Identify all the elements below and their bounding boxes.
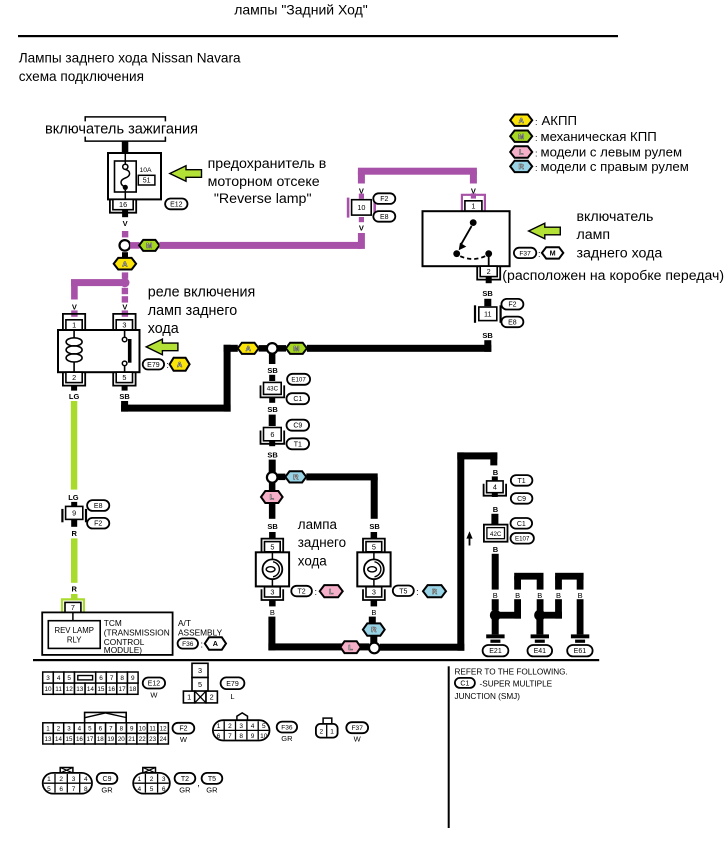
svg-text:16: 16 (76, 736, 83, 743)
wire SB horizontal run to switch branch (307, 345, 491, 352)
svg-text:B: B (493, 468, 499, 477)
svg-text::: : (535, 163, 538, 173)
relay coil branch: purple dashed wire V (71, 283, 78, 317)
svg-text:43C: 43C (267, 386, 279, 393)
svg-text::: : (416, 587, 419, 597)
bridge wire dot1 to E41 (495, 573, 543, 619)
option symbol M on SB wire (286, 343, 307, 354)
svg-text:R: R (519, 162, 525, 171)
svg-text:11: 11 (149, 725, 156, 732)
wire color labels B on ground verticals (491, 590, 585, 600)
svg-text:JUNCTION (SMJ): JUNCTION (SMJ) (455, 692, 521, 701)
svg-text:1: 1 (137, 776, 141, 783)
svg-text:V: V (359, 224, 364, 233)
lamp callout text (298, 517, 346, 569)
svg-text::: : (535, 117, 538, 127)
svg-text::: : (166, 360, 169, 370)
svg-text:9: 9 (251, 733, 255, 740)
svg-text:(расположен на коробке передач: (расположен на коробке передач) (502, 267, 724, 283)
svg-text:42C: 42C (490, 531, 502, 538)
connector 16 below fuse (110, 199, 136, 212)
svg-text:8: 8 (84, 786, 88, 793)
svg-text:8: 8 (120, 725, 124, 732)
svg-text:2: 2 (72, 373, 76, 382)
svg-text:лампа: лампа (298, 517, 338, 532)
right reverse lamp connector pin 5 (363, 539, 385, 552)
svg-text:V: V (123, 219, 128, 228)
TCM text (104, 618, 170, 655)
switch callout arrow (529, 223, 561, 239)
connector face F36 (213, 713, 270, 741)
svg-text:11: 11 (55, 686, 62, 693)
connector reference T1 oval at 4 (511, 475, 533, 486)
svg-text:10: 10 (139, 725, 146, 732)
svg-text:хода: хода (148, 321, 179, 337)
svg-text:5: 5 (47, 786, 51, 793)
svg-text:3: 3 (72, 776, 76, 783)
wire R down to TCM (71, 538, 78, 600)
connector face E12 grid (43, 672, 138, 694)
svg-text:лампы "Задний Ход": лампы "Задний Ход" (234, 2, 368, 18)
relay contact (122, 330, 131, 372)
svg-text:REV LAMP: REV LAMP (54, 626, 93, 635)
wire stub below 6 (267, 441, 278, 460)
ground junction dot 1 (490, 610, 501, 621)
wire B bottom horizontal run (268, 643, 369, 650)
svg-text:12: 12 (66, 686, 74, 693)
wire stub below relay pin 5 (122, 386, 128, 391)
ground symbol E41 (531, 634, 549, 642)
svg-text:V: V (72, 303, 77, 312)
wire SB from switch to connector 11 (484, 299, 491, 306)
wire pin7 into REV LAMP RLY (72, 612, 74, 620)
wire B from 42C to ground E21 (492, 545, 499, 611)
connector face T2 (133, 768, 170, 794)
connector face F37 label (346, 722, 368, 743)
wire stub above connector 9 (71, 502, 77, 507)
svg-text:реле включения: реле включения (148, 285, 255, 301)
wire stub below 43C (267, 398, 278, 415)
svg-text:2: 2 (210, 693, 214, 702)
svg-text:10A: 10A (140, 167, 153, 174)
inline connector 9 (62, 506, 86, 522)
purple wire V to relay branch (71, 279, 125, 286)
wire stub below connector 16 (122, 210, 128, 218)
svg-text:B: B (270, 608, 275, 617)
svg-text:B: B (493, 545, 499, 554)
wire stub node to R symbol (278, 474, 286, 481)
wire B top run to body ground chain (457, 452, 497, 459)
switch connector pin 2 (477, 266, 500, 279)
svg-text:M: M (146, 241, 152, 250)
svg-text:АКПП: АКПП (542, 113, 577, 128)
connector face F2 label (173, 723, 195, 744)
svg-text:L: L (348, 643, 353, 652)
option symbol A below node (114, 258, 136, 270)
connector reference E8 oval (373, 211, 395, 222)
relay contact branch: purple dashed wire V (122, 288, 128, 317)
svg-text:SB: SB (267, 451, 278, 460)
svg-text::: : (535, 148, 538, 158)
svg-text:18: 18 (129, 686, 137, 693)
junction node circle at lamps (267, 472, 278, 483)
connector reference E8 oval at 11 (501, 317, 523, 328)
svg-text:V: V (122, 303, 127, 312)
svg-text:51: 51 (143, 178, 151, 185)
wire SB vertical rise to A symbol (224, 345, 231, 412)
svg-text::: : (201, 639, 204, 649)
svg-text:4: 4 (137, 786, 141, 793)
fuse callout text (208, 156, 327, 207)
svg-text::: : (535, 133, 538, 143)
svg-text:9: 9 (130, 725, 134, 732)
connector face E12 label (143, 678, 165, 700)
inline connector 4 (484, 476, 507, 495)
svg-text:,: , (197, 778, 200, 788)
svg-text:5: 5 (88, 725, 92, 732)
svg-text::: : (538, 249, 541, 259)
wire B from right lamp down (369, 617, 376, 624)
svg-text:E8: E8 (94, 503, 103, 510)
wire LG from relay pin 2 down (68, 401, 79, 502)
svg-text:R: R (432, 587, 438, 596)
TCM connector reference F36 : A (178, 637, 226, 649)
wire SB to left lamp (267, 503, 278, 531)
legend symbol A (AKPP) (510, 113, 577, 128)
svg-text:5: 5 (262, 723, 266, 730)
svg-text:SB: SB (482, 289, 493, 298)
wire from ignition switch to fuse box (122, 141, 129, 153)
svg-text:16: 16 (119, 200, 127, 209)
svg-text:L: L (270, 493, 275, 502)
svg-text:LG: LG (68, 493, 79, 502)
svg-text:2: 2 (57, 725, 61, 732)
purple wire V rising to connector 10 (358, 171, 365, 199)
footnote C1 oval (455, 678, 475, 688)
svg-text:22: 22 (139, 736, 146, 743)
connector face C9 label (97, 773, 118, 795)
purple wire stub node to M symbol (130, 242, 140, 249)
svg-text:E107: E107 (515, 536, 530, 543)
svg-text:SB: SB (267, 405, 278, 414)
svg-text:A: A (122, 259, 127, 268)
relay connector pin 2 (63, 372, 85, 385)
svg-text:B: B (493, 591, 498, 600)
connector label E12 oval (165, 199, 187, 210)
TCM box (42, 612, 172, 655)
bridge wire dot2 to E61 (540, 573, 584, 635)
ground reference oval E61 (567, 645, 592, 656)
svg-text:E21: E21 (489, 648, 502, 655)
svg-text:F36: F36 (182, 641, 194, 648)
svg-text:M: M (293, 344, 299, 353)
wire stub below switch pin 2 (486, 277, 492, 284)
connector reference F2 oval at 9 (87, 518, 109, 529)
connector face T2 label (175, 773, 196, 795)
svg-text:F2: F2 (508, 302, 516, 309)
svg-text:E8: E8 (380, 214, 389, 221)
wire SB from connector 11 to main run (484, 340, 491, 352)
svg-text:3: 3 (122, 321, 126, 330)
purple wire V top horizontal run (358, 168, 477, 175)
relay connector pin 1 (63, 314, 85, 330)
footnote vertical divider (448, 666, 450, 828)
svg-text:2: 2 (319, 728, 323, 735)
svg-text:6: 6 (99, 675, 103, 682)
switch connector pin 1 (462, 195, 485, 211)
svg-text:1: 1 (330, 728, 334, 735)
svg-text:16: 16 (108, 686, 116, 693)
reverse lamp relay box (58, 330, 140, 372)
svg-text:6: 6 (162, 786, 166, 793)
fuse F 10A symbol (115, 154, 137, 199)
relay callout arrow (146, 339, 178, 355)
option symbol A on SB wire (238, 343, 259, 354)
svg-text:3: 3 (162, 776, 166, 783)
svg-text:1: 1 (217, 723, 221, 730)
bottom separator rule (33, 659, 599, 661)
connector reference E107 oval at 42C (511, 533, 534, 544)
svg-text:F2: F2 (94, 521, 102, 528)
inline connector 42C (484, 525, 508, 542)
svg-text:18: 18 (97, 736, 104, 743)
svg-text:C1: C1 (293, 396, 302, 403)
svg-text:5: 5 (198, 680, 202, 689)
svg-text:ASSEMBLY: ASSEMBLY (178, 627, 223, 637)
svg-text:механическая КПП: механическая КПП (541, 129, 657, 144)
svg-text:E41: E41 (534, 648, 547, 655)
svg-text:M: M (518, 132, 524, 141)
option symbol R on right lamp ground wire (363, 623, 385, 635)
wire B from ground node to right riser (380, 644, 465, 651)
svg-text:LG: LG (69, 392, 80, 401)
legend symbol M (manual gearbox) (510, 129, 656, 144)
svg-text:C9: C9 (293, 423, 302, 430)
svg-text:A: A (177, 360, 182, 369)
svg-text:RLY: RLY (67, 636, 82, 645)
svg-text:1: 1 (47, 776, 51, 783)
fuse box (engine room) (108, 153, 161, 199)
svg-text:T2: T2 (298, 589, 306, 596)
svg-text:3: 3 (46, 675, 50, 682)
junction node circle SB (267, 343, 278, 354)
svg-text:схема подключения: схема подключения (19, 69, 144, 84)
svg-text:2: 2 (150, 776, 154, 783)
ground symbol E61 (571, 634, 589, 642)
right reverse lamp wire stub and color label B (371, 532, 378, 617)
svg-text:7: 7 (228, 733, 232, 740)
svg-text:10: 10 (44, 686, 52, 693)
wire stub below relay pin 2 (71, 386, 77, 391)
ground reference oval E21 (483, 645, 509, 656)
right reverse lamp connector pin 3 (363, 587, 385, 600)
svg-text:7: 7 (110, 675, 114, 682)
svg-text:B: B (493, 505, 499, 514)
svg-text:2: 2 (59, 776, 63, 783)
wire stub below connector 9 and label R (71, 519, 77, 537)
svg-text:R: R (71, 529, 77, 538)
svg-text:C1: C1 (517, 521, 526, 528)
svg-text:11: 11 (484, 309, 492, 318)
svg-text:6: 6 (59, 786, 63, 793)
svg-text:M: M (550, 249, 556, 258)
svg-text:W: W (354, 735, 362, 744)
svg-text:6: 6 (217, 733, 221, 740)
connector reference C1 oval at 42C (511, 518, 533, 529)
relay connector pin 5 (113, 372, 135, 385)
svg-text:A: A (213, 639, 218, 648)
legend symbol L (left-hand drive) (510, 144, 682, 159)
left reverse lamp connector pin 5 (262, 539, 284, 552)
connector reference F2 oval (373, 193, 395, 204)
option symbol M on V wire (139, 240, 159, 251)
switch connector reference F37 : M (514, 247, 563, 259)
right reverse lamp bulb body (357, 552, 390, 586)
left reverse lamp bulb body (256, 552, 289, 586)
svg-text:A: A (246, 344, 251, 353)
svg-text:23: 23 (149, 736, 156, 743)
svg-text:4: 4 (57, 675, 61, 682)
wire B between connector 4 and 42C (491, 493, 498, 525)
svg-text:8: 8 (239, 733, 243, 740)
ignition switch label bracket (45, 117, 198, 141)
svg-text:модели с левым рулем: модели с левым рулем (541, 144, 683, 159)
relay callout text (148, 285, 255, 338)
svg-text:E61: E61 (574, 648, 587, 655)
wire SB from relay pin 5 down (121, 401, 128, 412)
svg-text:SB: SB (369, 522, 380, 531)
svg-text:3: 3 (372, 588, 376, 597)
svg-text:24: 24 (160, 736, 167, 743)
purple dashed wire segment (122, 231, 128, 237)
connector face T5 label (202, 773, 223, 795)
switch callout text (577, 209, 663, 261)
connector face F2 grid (43, 712, 169, 744)
wire stub node to A symbol (122, 252, 128, 258)
svg-text:E12: E12 (148, 681, 161, 688)
purple wire V dropping to gearbox switch (470, 171, 477, 198)
svg-text:F37: F37 (352, 725, 364, 732)
wire B drop to connector 4 (490, 452, 498, 477)
purple wire V from M symbol to gearbox switch branch (159, 242, 361, 249)
svg-text:B: B (578, 591, 583, 600)
svg-text:C1: C1 (460, 680, 469, 687)
svg-text:W: W (180, 735, 188, 744)
right lamp connector reference T5 : R (393, 585, 446, 597)
fuse number box 51 (138, 175, 155, 185)
wire stub A symbol to node (259, 345, 267, 352)
svg-text:F36: F36 (281, 725, 293, 732)
wire stub node to M symbol (278, 345, 287, 352)
svg-text:моторном отсеке: моторном отсеке (208, 174, 320, 190)
svg-text:1: 1 (471, 202, 475, 211)
svg-text:19: 19 (107, 736, 114, 743)
wire SB bottom horizontal run (121, 405, 231, 412)
svg-text:модели с правым рулем: модели с правым рулем (541, 159, 689, 174)
svg-text:17: 17 (119, 686, 127, 693)
svg-text:13: 13 (45, 736, 52, 743)
connector face E79 label (221, 677, 245, 701)
svg-text:L: L (230, 692, 234, 701)
svg-text:заднего хода: заднего хода (577, 245, 663, 261)
svg-text:T1: T1 (294, 441, 302, 448)
purple wire V from connector 10 down to main V wire (358, 217, 365, 249)
left reverse lamp connector pin 3 (262, 587, 284, 600)
svg-text:ламп: ламп (577, 227, 611, 243)
svg-text:T2: T2 (181, 776, 189, 783)
svg-text:3: 3 (67, 725, 71, 732)
svg-text:13: 13 (76, 686, 84, 693)
svg-text:хода: хода (298, 554, 328, 569)
svg-text:7: 7 (72, 786, 76, 793)
node junction circle at fuse output (120, 240, 131, 251)
direction arrow up (466, 531, 472, 545)
svg-text:L: L (329, 587, 334, 596)
switch contact symbol (453, 219, 492, 266)
svg-text:21: 21 (128, 736, 135, 743)
svg-text:20: 20 (118, 736, 125, 743)
connector face C9 (43, 768, 92, 794)
svg-text:R: R (293, 473, 299, 482)
svg-text:REFER TO THE FOLLOWING.: REFER TO THE FOLLOWING. (455, 668, 568, 677)
svg-text:включатель: включатель (577, 209, 654, 225)
A/T assembly text (178, 618, 223, 637)
svg-text:5: 5 (122, 373, 126, 382)
wire SB below node (267, 354, 278, 381)
connector face F37 (316, 718, 338, 738)
svg-text:C9: C9 (103, 776, 112, 783)
svg-text:E8: E8 (508, 319, 517, 326)
svg-text:15: 15 (97, 686, 105, 693)
svg-text:9: 9 (131, 675, 135, 682)
option symbol L on bottom wire (340, 641, 360, 653)
svg-text:12: 12 (160, 725, 167, 732)
svg-text:3: 3 (239, 723, 243, 730)
relay coil (66, 330, 82, 372)
inline connector 43C (261, 382, 285, 397)
svg-text:4: 4 (251, 723, 255, 730)
svg-text:10: 10 (260, 733, 268, 740)
svg-text:6: 6 (270, 430, 274, 439)
svg-text:2: 2 (487, 267, 491, 276)
svg-text:E12: E12 (170, 201, 183, 208)
svg-text:R: R (71, 584, 77, 593)
svg-text:4: 4 (84, 776, 88, 783)
svg-text::: : (314, 587, 317, 597)
svg-text:14: 14 (55, 736, 62, 743)
reverse lamp switch box (423, 211, 510, 266)
svg-text:3: 3 (198, 666, 202, 675)
left lamp connector reference T2 : L (291, 585, 342, 597)
svg-text:4: 4 (493, 482, 497, 491)
svg-text:6: 6 (99, 725, 103, 732)
svg-text:F2: F2 (179, 726, 187, 733)
svg-text:B: B (537, 591, 542, 600)
svg-text:5: 5 (372, 542, 376, 551)
wire SB between 43C and 6 (269, 415, 276, 426)
svg-text:T5: T5 (208, 776, 216, 783)
svg-text:1: 1 (46, 725, 50, 732)
svg-text:R: R (371, 625, 377, 634)
inline connector 11 (475, 305, 501, 323)
svg-text:GR: GR (206, 786, 218, 795)
svg-text:"Reverse lamp": "Reverse lamp" (214, 191, 312, 207)
svg-text:A: A (519, 116, 524, 125)
svg-text:MODULE): MODULE) (104, 645, 142, 655)
svg-text:L: L (519, 148, 524, 157)
REV LAMP RLY inner box (48, 621, 100, 649)
svg-text:1: 1 (187, 693, 191, 702)
